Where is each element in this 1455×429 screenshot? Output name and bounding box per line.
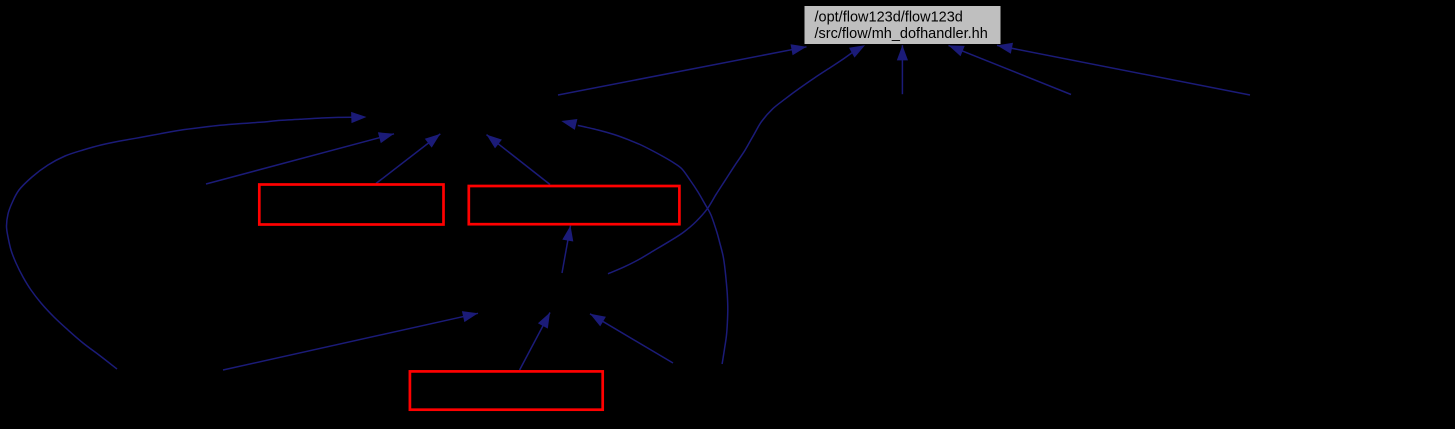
svg-text:/opt/flow123d/flow123d: /opt/flow123d/flow123d bbox=[815, 10, 963, 26]
svg-text:/src/flow/mh_dofhandler.hh: /src/flow/mh_dofhandler.hh bbox=[815, 26, 988, 42]
